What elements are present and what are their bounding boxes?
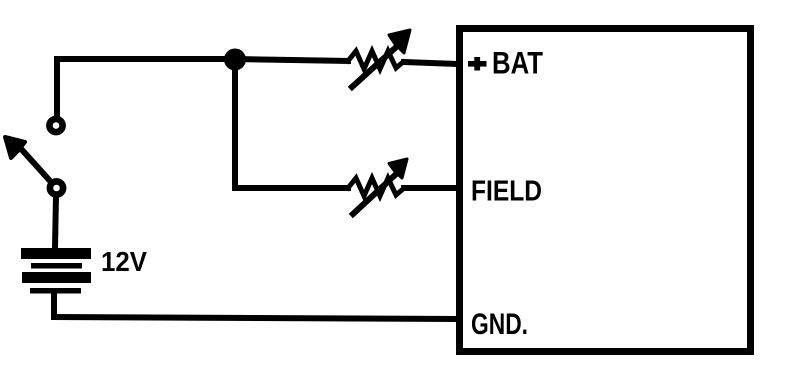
label 12V — [101, 246, 148, 277]
label +BAT pin: plus sign — [468, 57, 487, 71]
wire: FIELD branch left of rheostat — [235, 185, 348, 191]
switch S1 blade arrow — [5, 137, 51, 182]
label GND. pin — [471, 308, 528, 341]
switch S1 upper contact — [49, 119, 62, 132]
switch S1 lower contact — [50, 181, 63, 194]
regulator box U1 — [460, 29, 751, 352]
rheostat R1 arrow — [352, 30, 410, 87]
svg-text:FIELD: FIELD — [471, 175, 542, 207]
battery BT1 plates — [21, 248, 91, 294]
svg-text:BAT: BAT — [492, 46, 543, 81]
rheostat R2 arrow — [353, 159, 407, 214]
wire: switch to battery — [55, 196, 56, 248]
label +BAT pin: BAT text — [492, 46, 543, 81]
wire: FIELD branch right of rheostat to regulator — [404, 185, 458, 191]
svg-text:12V: 12V — [101, 246, 148, 277]
wire: bottom ground rail to regulator GND — [54, 317, 457, 319]
rheostat R1 zigzag (+BAT line) — [348, 51, 403, 69]
wire: junction down to FIELD branch — [232, 59, 238, 188]
wire top rail left: switch top to junction — [57, 59, 235, 116]
svg-text:GND.: GND. — [471, 308, 528, 341]
wire top rail right: junction to regulator +BAT with rheostat gap — [235, 59, 458, 64]
junction dot node A — [226, 51, 244, 69]
wire: battery to bottom rail — [51, 293, 57, 317]
label FIELD pin — [471, 175, 542, 207]
rheostat R2 zigzag (FIELD line) — [348, 178, 403, 196]
